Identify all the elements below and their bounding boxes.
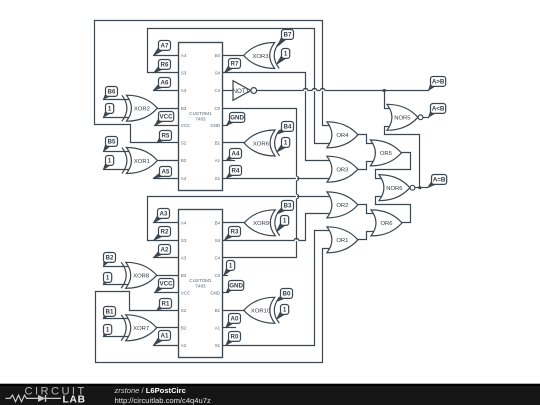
inverter NOT1 [233,81,251,101]
svg-text:A>B: A>B [432,79,445,86]
svg-text:A2: A2 [181,343,187,348]
svg-text:GND: GND [229,283,243,290]
xor XOR9 [244,210,275,236]
node C4-NOR5 junction [383,89,386,92]
svg-text:7483: 7483 [195,116,206,121]
flag R6 [154,66,164,73]
flag A5 [154,173,165,178]
wire net R7 to OR3 [223,73,333,161]
svg-text:B7: B7 [284,32,292,39]
svg-text:VCC: VCC [160,281,174,288]
wire C0 stub chip2 [223,275,228,277]
svg-text:1: 1 [106,327,110,334]
footer bar [0,384,540,405]
wire GND stub chip2 [223,292,229,294]
wire B2 row XOR7 out [157,327,179,329]
wire hop C4row-x305 [303,88,307,90]
flag R5 [157,137,164,143]
wire NOR5 in upper from C4 net [385,91,393,109]
wire A2 stub [154,178,179,180]
svg-text:NOR6: NOR6 [386,186,403,192]
flag B7 [278,36,287,46]
wire net R3 to OR2 [223,214,333,241]
flag A2 chip2 [154,251,164,258]
svg-text:R6: R6 [161,62,169,69]
wire NOR6 out [415,187,428,189]
wire XOR7 in2 [104,336,129,338]
flag R4 [227,172,235,178]
svg-text:B3: B3 [181,273,187,278]
xor XOR6 [244,130,275,156]
wire XOR6 out to B1 [223,142,245,144]
svg-text:R7: R7 [231,61,239,68]
svg-text:S2: S2 [181,141,187,146]
wire OR5 to NOR6 upper [376,153,411,179]
wire B3 row XOR8 out [157,275,179,277]
svg-text:OR1: OR1 [336,238,348,244]
svg-text:R3: R3 [231,229,239,236]
flag B5 [104,143,111,151]
svg-text:1: 1 [229,263,233,270]
xor XOR2 [126,95,157,121]
svg-text:VCC: VCC [181,290,190,295]
wire XOR8 in1 [104,266,129,268]
node A=B junction [418,186,421,189]
svg-text:1: 1 [108,158,112,165]
wire net R2 loop to OR2 [148,197,333,241]
svg-text:CUSTOM1: CUSTOM1 [189,111,212,116]
wire GND stub chip1 [223,125,228,127]
flag 1 xor10 [277,311,286,319]
svg-text:R4: R4 [232,168,240,175]
flag VCC chip2 [155,285,163,293]
wire net R6 inner loop [148,29,333,144]
svg-text:A4: A4 [181,220,187,225]
wire OR6 to NOR6 lower [376,197,411,223]
flag B6 [104,93,111,99]
svg-text:R5: R5 [162,133,170,140]
wire net R4 to OR3 [223,178,334,180]
svg-text:A2: A2 [181,176,187,181]
svg-text:7483: 7483 [195,283,206,288]
svg-text:B1: B1 [215,141,221,146]
wire C4 to NOT1 [223,90,233,92]
svg-text:R0: R0 [231,334,239,341]
nor NOR6 [379,175,410,201]
svg-text:XOR10: XOR10 [251,309,271,315]
flag 1 xor3 [277,55,287,64]
svg-text:1: 1 [283,307,287,314]
wire XOR1 in2 [104,169,130,171]
svg-text:OR3: OR3 [336,168,349,174]
wire net R0 to OR1 [223,231,333,346]
wire A2 stub chip2 [154,345,179,347]
svg-text:OR5: OR5 [380,151,393,157]
or OR4 [327,122,358,148]
svg-text:GND: GND [210,290,220,295]
xor XOR3 [244,43,275,69]
svg-text:A3: A3 [181,255,187,260]
svg-text:GND: GND [230,115,244,122]
flag B2 xor8 [104,259,109,266]
flag A0 [226,320,233,328]
wire cascade C0-C4 [223,109,297,258]
wire VCC stub chip1 [155,125,179,127]
svg-text:A1: A1 [215,158,221,163]
svg-text:CUSTOM1: CUSTOM1 [189,278,212,283]
svg-text:1: 1 [108,106,112,113]
wire VCC stub chip2 [155,292,179,294]
svg-text:A3: A3 [160,211,168,218]
svg-text:C4: C4 [214,88,220,93]
wire A3 stub [154,90,179,92]
wire NOR5 out [423,117,429,119]
svg-text:A=B: A=B [433,177,446,184]
svg-text:B0: B0 [283,291,291,298]
wire XOR2 in2 [104,117,130,119]
wire B2 row XOR1 out [158,160,179,162]
svg-text:S2: S2 [181,308,187,313]
flag 1 xor6 [277,144,286,152]
svg-text:XOR8: XOR8 [133,274,150,280]
flag GND chip1 [227,119,235,125]
flag 1 xor2 [104,110,111,117]
wire hop R3row-cascade [294,238,298,240]
wire A4 stub chip2 [154,222,179,224]
svg-text:A2: A2 [161,247,169,254]
svg-text:C4: C4 [214,255,220,260]
flag R3 [225,233,234,240]
svg-text:S1: S1 [215,176,221,181]
svg-text:B2: B2 [181,158,187,163]
svg-text:C0: C0 [214,106,220,111]
svg-text:OR6: OR6 [380,221,393,227]
svg-text:XOR7: XOR7 [133,326,149,332]
or OR5 [370,140,401,166]
IC U1 CUSTOM1 7483 [179,43,223,191]
svg-text:B5: B5 [108,139,116,146]
svg-text:http://circuitlab.com/c4q4u7z: http://circuitlab.com/c4q4u7z [115,396,211,405]
svg-text:A1: A1 [161,333,169,340]
or OR1 [327,227,358,253]
IC U2 CUSTOM1 7483 [179,210,223,358]
svg-text:S4: S4 [215,238,221,243]
svg-text:1: 1 [284,51,288,58]
wire A1 stub chip1 [223,160,235,162]
flag B3 xor9 [278,207,287,214]
svg-text:A1: A1 [215,325,221,330]
wire net R1 outer loop 2 [96,249,333,363]
svg-text:1: 1 [284,140,288,147]
flag A<B [429,110,436,117]
svg-text:XOR9: XOR9 [253,221,269,227]
flag R7 [225,65,234,73]
wire OR2 to OR6 [358,205,377,214]
flag R0 [226,338,233,345]
xor XOR10 [244,297,275,323]
flag 1 xor9 [277,222,286,232]
flag R1 [157,305,164,310]
wire B3 row XOR2 out [158,108,179,110]
svg-text:S1: S1 [215,343,221,348]
wire XOR7 in1 [104,318,129,320]
svg-text:VCC: VCC [160,114,174,121]
svg-text:zrstone / L6PostCirc: zrstone / L6PostCirc [114,386,186,395]
flag VCC chip1 [155,118,163,125]
svg-text:OR4: OR4 [336,133,349,139]
wire A3 stub chip2 [154,257,179,259]
flag A>B [429,83,436,90]
svg-text:R2: R2 [161,229,169,236]
flag GND chip2 [226,287,233,293]
svg-text:B2: B2 [181,325,187,330]
or OR2 [327,192,358,218]
wire hop cascade-R2row [296,194,298,198]
wire NOT1 out to A>B [257,90,429,92]
svg-text:XOR1: XOR1 [134,159,150,165]
svg-text:A4: A4 [181,53,187,58]
svg-text:1: 1 [106,275,110,282]
svg-text:S3: S3 [181,71,187,76]
flag 1 xor8 [104,279,109,284]
svg-text:B4: B4 [284,124,292,131]
wire hop C4row-x322 [320,88,324,90]
svg-text:GND: GND [210,123,220,128]
wire A4 stub [154,55,179,57]
svg-text:A0: A0 [231,316,239,323]
xor XOR7 [126,315,157,341]
flag B4 xor6 [278,128,286,134]
svg-text:A5: A5 [162,169,170,176]
svg-text:VCC: VCC [181,123,190,128]
svg-text:XOR3: XOR3 [252,54,269,60]
wire XOR10 out to B1 [223,310,244,312]
or OR6 [371,210,402,236]
svg-text:C0: C0 [214,273,220,278]
svg-text:LAB: LAB [63,395,86,405]
flag 1 C0 chip2 [224,267,231,275]
nor NOR5 [387,104,418,130]
flag A1 chip2 [154,337,164,345]
svg-text:B3: B3 [181,106,187,111]
svg-text:B6: B6 [108,89,116,96]
flag B0 xor10 [278,295,286,301]
svg-text:B3: B3 [284,203,292,210]
svg-text:A7: A7 [161,43,169,50]
svg-text:A<B: A<B [432,106,445,113]
flag A3 chip2 [154,215,163,223]
wire XOR1 in1 [104,151,130,153]
svg-text:B4: B4 [215,220,221,225]
wire XOR8 in2 [104,284,129,286]
wire A1 stub chip2 [223,327,236,329]
flag A7 [154,47,164,55]
flag A=B [428,181,437,188]
wire A=B net to NOR5 lower [385,127,420,188]
wire XOR2 in1 [104,99,130,101]
svg-text:A4: A4 [232,151,240,158]
flag 1 xor7 [104,331,109,337]
xor XOR1 [126,148,157,174]
svg-text:NOR5: NOR5 [394,116,411,122]
svg-text:1: 1 [283,218,287,225]
flag R2 [154,233,164,240]
flag 1 xor1 [104,162,111,169]
svg-text:S3: S3 [181,238,187,243]
svg-text:B2: B2 [106,255,114,262]
svg-text:S4: S4 [215,71,221,76]
wire hop cascade-S1row [296,176,298,180]
svg-text:OR2: OR2 [336,203,348,209]
svg-text:B4: B4 [215,53,221,58]
svg-text:B1: B1 [106,309,114,316]
xor XOR8 [126,262,157,288]
flag B1 xor7 [104,313,109,319]
svg-text:B1: B1 [215,308,221,313]
or OR3 [327,156,358,182]
wire OR4 to OR5 [358,135,376,144]
svg-text:R1: R1 [162,301,170,308]
wire OR3 to OR5 [358,162,376,170]
svg-text:XOR2: XOR2 [134,107,150,113]
wire net R5 outer loop [95,21,333,143]
flag A4 chip1 [227,155,235,160]
wire XOR3 out to B4 [223,55,244,57]
wire hop C4row-x314 [312,88,316,90]
svg-text:NOT1: NOT1 [233,88,250,95]
wire OR1 to OR6 [358,232,377,240]
svg-text:A3: A3 [181,88,187,93]
svg-text:A6: A6 [161,80,169,87]
flag A6 [154,84,164,90]
wire XOR9 out to B4 [223,222,245,224]
svg-text:XOR6: XOR6 [253,141,270,147]
